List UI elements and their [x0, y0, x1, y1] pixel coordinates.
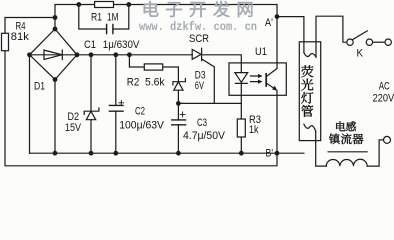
wire: switch middle terminal to AC terminal — [373, 41, 385, 43]
wire: bridge middle line — [30, 54, 78, 56]
wire: bottom rail to tube lower-left pin — [30, 152, 304, 154]
wire: R4 top lead and horizontal run to bridge-top junction — [5, 18, 55, 34]
svg-text:6V: 6V — [195, 80, 204, 92]
wire: tube upper-right pin up and over to switch K — [316, 16, 347, 57]
svg-text:C2: C2 — [135, 106, 145, 118]
wire: gate bus from D3/C3 node to R3/LED node — [178, 102, 241, 104]
label fluorescent tube (vertical) — [301, 65, 313, 77]
switch K right contact — [366, 39, 372, 45]
svg-text:220V: 220V — [373, 92, 394, 104]
resistor R3 body — [237, 119, 245, 137]
wire: top rail from node above bridge to A' drop — [55, 5, 277, 69]
svg-text:U1: U1 — [255, 46, 267, 58]
svg-text:1M: 1M — [107, 11, 119, 23]
svg-text:R2: R2 — [127, 77, 140, 89]
wire: bridge left vertex down to bottom rail — [29, 55, 31, 153]
wire: R2 branch from rail junction — [129, 55, 178, 82]
wire: R3 bottom to bottom rail — [240, 137, 242, 153]
svg-text:1μ/630V: 1μ/630V — [103, 39, 140, 51]
optocoupler U1 box — [229, 63, 286, 95]
node top-rail left junction — [76, 2, 81, 7]
wire: C2 branch bottom — [115, 111, 117, 153]
node C2 bottom junction — [113, 151, 118, 156]
svg-text:B': B' — [266, 147, 274, 159]
inductor ballast coil windings — [326, 159, 367, 166]
svg-text:1k: 1k — [249, 124, 259, 136]
label ballast line1 — [336, 121, 345, 131]
U1 LED — [235, 73, 248, 84]
diode D1 (inside bridge) — [44, 50, 62, 59]
capacitor C2 plates — [109, 105, 123, 111]
wire: A' node to tube upper-left pin — [277, 17, 304, 53]
node bridge left vertex — [27, 52, 32, 57]
AC lower terminal — [384, 136, 391, 143]
wire: C1 parallel branch loop — [79, 5, 129, 30]
AC upper terminal — [385, 39, 391, 45]
switch K left contact — [347, 39, 353, 45]
wire: outer bottom return B' to R4 bottom lead — [5, 51, 277, 166]
svg-text:4.7μ/50V: 4.7μ/50V — [183, 130, 225, 142]
thyristor SCR — [192, 48, 201, 60]
wire: SCR cathode to U1 LED anode drop — [202, 55, 242, 73]
U1 light arrows — [251, 76, 260, 82]
bridge rectifier D1 diamond outline — [30, 29, 78, 80]
wire: tube lower-right pin down to ballast coil — [316, 131, 327, 166]
capacitor C1 plates — [107, 24, 113, 33]
resistor R4 body — [2, 33, 9, 50]
capacitor C3 plates — [172, 120, 186, 125]
U1 emitter arrow head — [272, 86, 277, 91]
svg-text:R1: R1 — [91, 11, 102, 23]
svg-text:5.6k: 5.6k — [145, 77, 165, 89]
U1 arrow heads — [258, 74, 263, 78]
node top-rail right junction — [126, 2, 131, 7]
node B' junction — [275, 151, 280, 156]
svg-text:www. dzkfw. com. cn: www. dzkfw. com. cn — [139, 20, 257, 34]
resistor R2 body — [144, 64, 162, 70]
zener diode D3 — [173, 79, 186, 91]
svg-text:81k: 81k — [11, 31, 29, 43]
svg-text:SCR: SCR — [189, 33, 209, 45]
wire: DC rail from bridge right vertex to SCR anode — [77, 54, 192, 56]
node bridge-bottom rail junction — [53, 151, 58, 156]
node bridge right vertex — [75, 52, 80, 57]
resistor R1 body — [95, 2, 114, 8]
node D2 top junction — [89, 52, 94, 57]
wire: C3 bottom to bottom rail — [177, 125, 179, 153]
node R2 branch junction — [127, 52, 132, 57]
U1 phototransistor — [265, 74, 267, 86]
node A' junction — [275, 14, 280, 19]
svg-text:K: K — [357, 48, 364, 60]
wire: D2 branch top — [90, 55, 92, 111]
node R3 bottom junction — [239, 151, 244, 156]
wire: C2 branch top — [115, 55, 117, 106]
wire: bridge bottom vertex down to bottom rail — [54, 80, 56, 154]
node C3 bottom junction — [176, 151, 181, 156]
node bridge top vertex — [53, 27, 58, 32]
tube bottom filament — [304, 124, 316, 131]
inductor ballast core bar — [328, 151, 367, 153]
watermark logo — [144, 1, 159, 17]
wire: D3 anode down through gate node to C3 — [177, 90, 179, 120]
svg-text:100μ/63V: 100μ/63V — [119, 119, 164, 131]
tube top filament — [304, 53, 316, 58]
wire: U1 LED cathode down to R3 top — [240, 83, 242, 119]
fluorescent tube box — [299, 42, 320, 141]
capacitor C3 polarity + — [180, 112, 185, 117]
node C2 top junction — [113, 52, 118, 57]
node gate/D3/C3 junction — [176, 101, 181, 106]
label ballast line2 — [329, 134, 340, 145]
svg-text:D1: D1 — [34, 81, 45, 93]
wire: SCR gate lead — [202, 59, 214, 103]
svg-text:AC: AC — [379, 80, 390, 92]
svg-text:C3: C3 — [197, 117, 207, 129]
switch K blade — [353, 31, 368, 40]
node bridge bottom vertex — [53, 77, 58, 82]
node D2 bottom junction — [89, 151, 94, 156]
svg-text:A': A' — [265, 17, 273, 29]
node R4/bridge-top junction — [53, 15, 58, 20]
svg-text:C1: C1 — [84, 39, 96, 51]
capacitor C2 polarity + — [119, 100, 124, 105]
zener diode D2 — [84, 108, 99, 120]
svg-text:15V: 15V — [65, 122, 81, 134]
wire: coil to AC lower terminal — [367, 140, 383, 166]
wire: D2 branch bottom — [90, 120, 92, 154]
